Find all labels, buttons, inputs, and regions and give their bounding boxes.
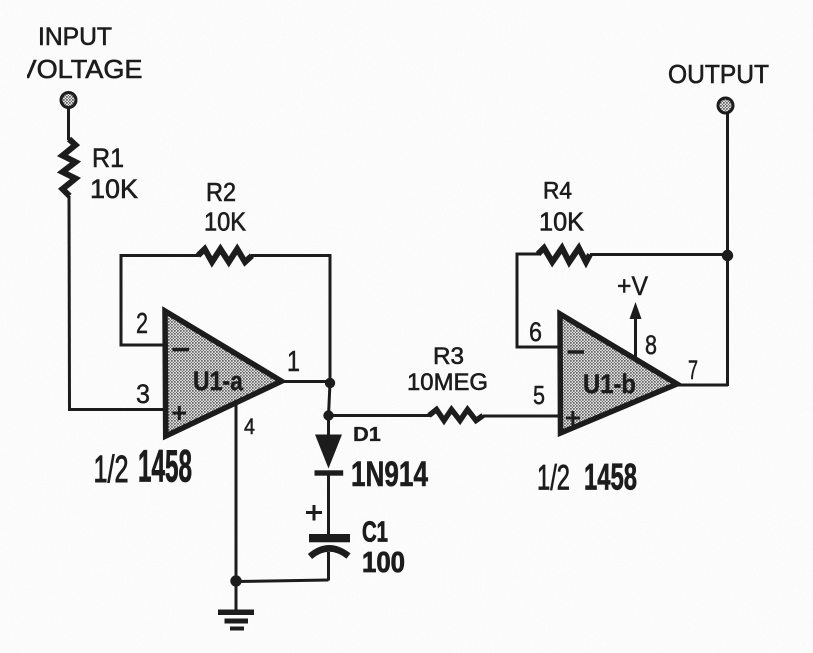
capacitor C1	[306, 505, 405, 579]
wire R4 top right segment	[590, 253, 728, 256]
node R4 output junction	[722, 250, 733, 261]
wire input stub	[67, 108, 70, 140]
node output U1-a junction	[325, 378, 335, 388]
resistor R1	[63, 139, 139, 204]
input terminal	[61, 93, 76, 108]
wire feedback left vertical	[120, 254, 123, 346]
wire feedback right vertical	[329, 254, 332, 383]
wire feedback top right segment	[251, 254, 330, 257]
output terminal	[718, 98, 733, 113]
diode D1	[315, 424, 429, 494]
wire pin3 horizontal	[68, 408, 166, 411]
node D1 junction	[323, 410, 333, 420]
label 1/2 1458 right	[537, 457, 637, 498]
resistor R4	[538, 178, 590, 263]
resistor R3	[407, 343, 488, 421]
node INPUT VOLTAGE label	[0, 23, 143, 86]
+V supply arrow	[617, 271, 648, 357]
node ground junction	[230, 575, 241, 586]
op-amp U1-a	[165, 311, 282, 436]
wire pin6 horizontal	[516, 346, 562, 349]
wire bottom horizontal	[236, 580, 329, 582]
wire feedback top left segment	[120, 254, 200, 257]
wire D1 bottom	[327, 474, 330, 534]
wire input down	[68, 196, 72, 410]
wire mid horizontal left	[329, 414, 431, 417]
wire mid horizontal right	[483, 415, 561, 418]
wire U1-a output	[281, 380, 330, 383]
wire pin2 horizontal	[120, 344, 167, 347]
ground	[218, 610, 254, 631]
op-amp U1-b	[560, 314, 677, 433]
wire R4 top left segment	[516, 253, 540, 256]
resistor R2	[198, 177, 252, 262]
wire U1-b output	[676, 384, 728, 387]
wire C1 bottom	[327, 552, 330, 581]
wire pin4 vertical	[235, 405, 238, 581]
label 1/2 1458 left	[94, 441, 193, 492]
wire node vertical	[329, 383, 331, 416]
wire ground stub	[235, 581, 238, 610]
wire D1 top	[327, 416, 330, 438]
wire R4 left vertical	[516, 254, 519, 348]
wire output vertical	[726, 113, 729, 386]
